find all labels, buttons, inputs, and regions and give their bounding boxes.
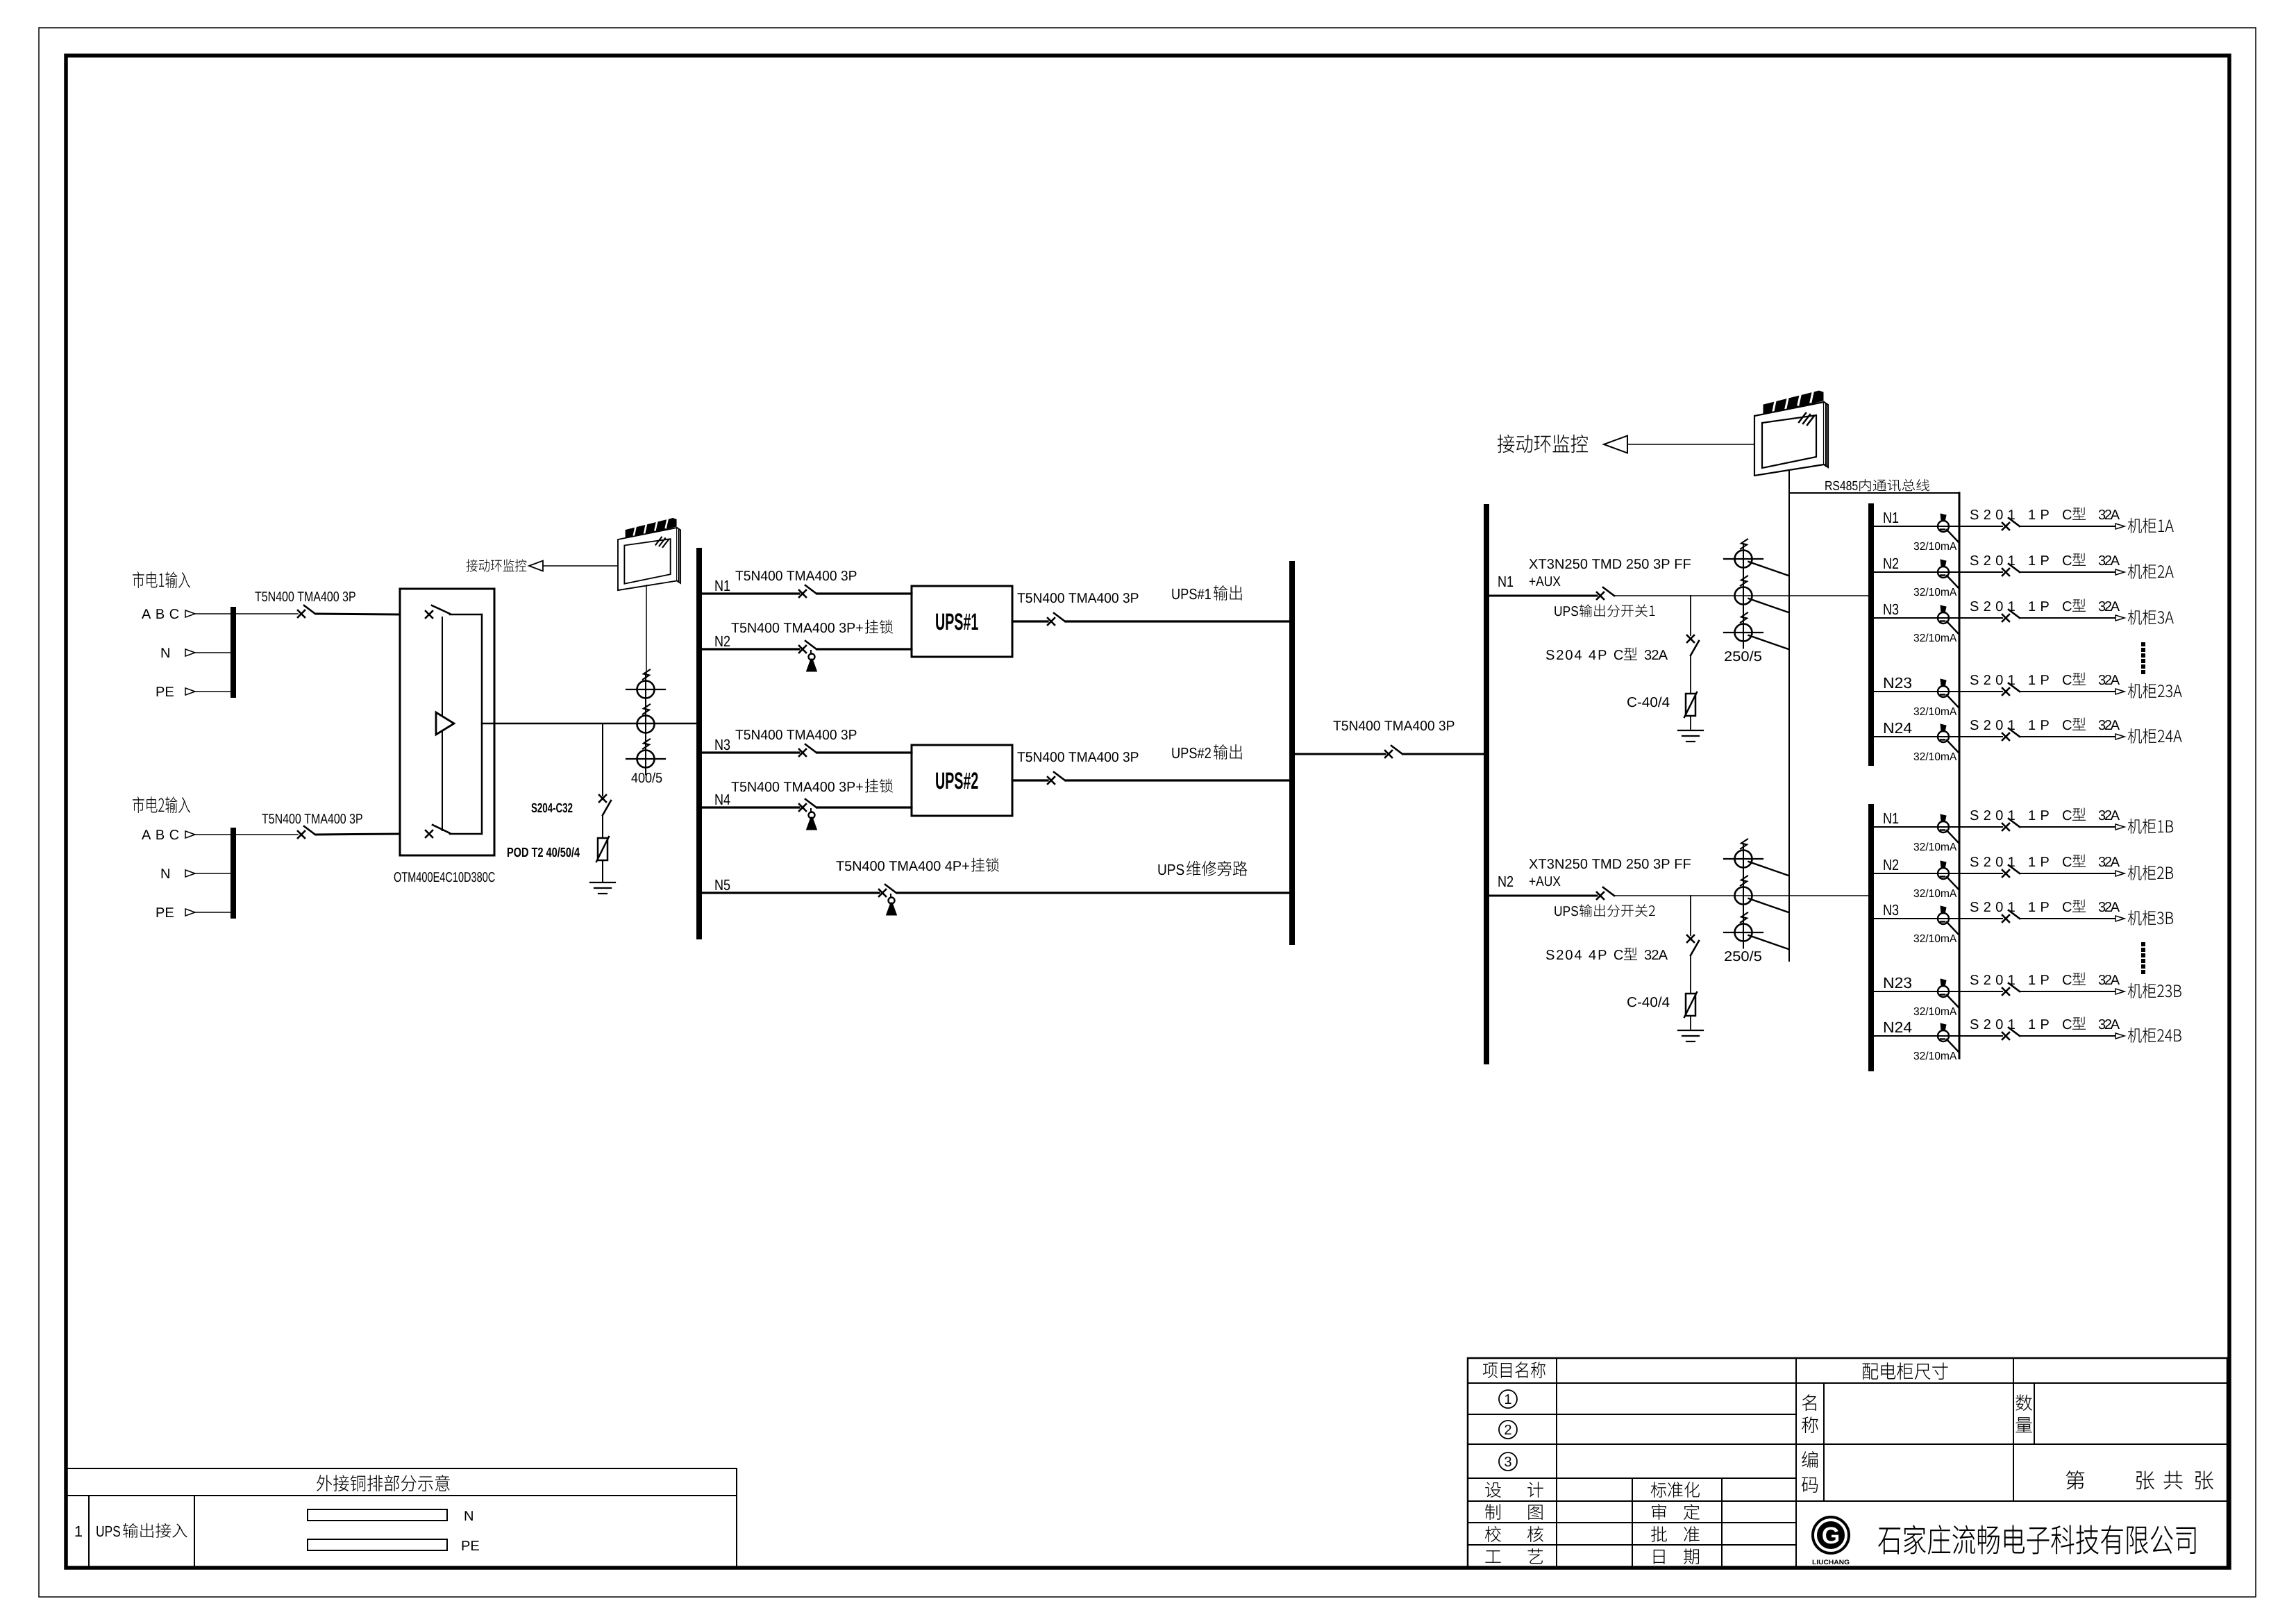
label 项目名称 <box>1483 1362 1545 1378</box>
ground <box>590 882 615 883</box>
label 日期 <box>1654 1550 1665 1564</box>
busbar branch group B <box>1868 807 1874 1069</box>
label 市电2输入 <box>133 796 190 813</box>
busbar mains input 市电1输入 <box>231 610 236 695</box>
arrow to monitoring system <box>529 561 543 571</box>
wire branch <box>1874 918 2002 919</box>
node N2 (main bus feeder) <box>1498 876 1513 887</box>
RCD sensor 32/10mA <box>1938 1030 1949 1041</box>
wire RS485 CT collector line <box>1788 493 1790 961</box>
ATS internal common bus <box>481 614 483 834</box>
title block frame <box>1468 1358 2227 1568</box>
wire ATS output <box>482 723 494 725</box>
ATS transfer switch OTM400E4C10D380C box <box>400 589 494 855</box>
label 设计 <box>1485 1482 1501 1498</box>
RCD sensor 32/10mA <box>1938 868 1949 879</box>
node N2 <box>715 636 730 646</box>
label 机柜3A <box>2128 610 2174 625</box>
arrow to cabinet <box>2115 615 2125 621</box>
node A B C input terminals <box>142 830 178 839</box>
node N input terminal <box>162 648 169 658</box>
label 外接铜排部分示意 <box>317 1475 450 1491</box>
busbar N copper bar <box>308 1509 447 1521</box>
breaker S204 4P C型 32A <box>1687 635 1699 655</box>
breaker S201 1P C型 32A <box>2002 728 2020 740</box>
breaker N5 T5N400 TMA400 4P+挂锁 <box>879 885 896 896</box>
label 机柜24B <box>2128 1028 2181 1043</box>
CT 250/5 (3 metering CTs) <box>1743 844 1744 948</box>
wire N2 feeder <box>702 648 799 650</box>
wire tie bus2-bus3 <box>1295 753 1385 755</box>
label 制图 <box>1485 1504 1500 1520</box>
label 接动环监控 (left) <box>467 559 527 571</box>
label 审定 <box>1652 1504 1666 1520</box>
breaker XT3N250 TMD 250 3P FF+AUX <box>1597 887 1614 899</box>
label 配电柜尺寸 <box>1863 1362 1948 1380</box>
busbar UPS output bus <box>1289 564 1295 942</box>
UPS#1 box <box>912 586 1012 657</box>
node N5 <box>715 880 730 890</box>
breaker QF1 T5N400 TMA400 3P (mains 1) <box>298 605 315 617</box>
wire branch <box>1874 736 2002 737</box>
UPS#2 box <box>912 745 1012 816</box>
arrow to cabinet <box>2115 734 2125 739</box>
RCD sensor 32/10mA <box>1938 686 1949 697</box>
label 机柜1B <box>2128 819 2173 834</box>
node N1 branch <box>1884 813 1898 823</box>
circled number 1 <box>1499 1390 1517 1408</box>
ATS label OTM400E4C10D380C <box>394 872 495 882</box>
node N3 <box>715 739 730 751</box>
label 输出分开关2 <box>1555 906 1578 916</box>
wire branch <box>1874 1035 2002 1037</box>
breaker S201 1P C型 32A <box>2002 983 2020 995</box>
breaker XT3N250 TMD 250 3P FF+AUX <box>1597 587 1614 599</box>
surge arrester POD T2 40/50/4 <box>598 838 607 860</box>
node PE input terminal <box>157 687 174 696</box>
node N1 branch <box>1884 512 1898 523</box>
label 机柜23A <box>2128 683 2182 698</box>
wire SPD branch drop <box>1690 596 1691 635</box>
circled number 2 <box>1499 1421 1517 1439</box>
label 400/5 <box>631 772 662 782</box>
breaker N3 T5N400 TMA400 3P <box>799 744 816 756</box>
wire feeder <box>1489 895 1597 897</box>
arrow to cabinet <box>2115 916 2125 921</box>
arrow to cabinet <box>2115 989 2125 994</box>
wire branch <box>1874 826 2002 828</box>
node A B C input terminals <box>142 609 178 619</box>
breaker S201 1P C型 32A <box>2002 564 2020 576</box>
arrow to cabinet <box>2115 871 2125 876</box>
breaker tie T5N400 TMA400 3P <box>1385 746 1402 757</box>
label RS485内通讯总线 <box>1825 481 1857 490</box>
breaker S201 1P C型 32A <box>2002 865 2020 877</box>
breaker S201 1P C型 32A <box>2002 610 2020 621</box>
busbar PE copper bar <box>308 1539 447 1550</box>
label 第 张 共 张 <box>2066 1471 2085 1489</box>
breaker N1 T5N400 TMA400 3P <box>799 585 816 597</box>
node N2 branch <box>1884 860 1898 870</box>
label 批准 <box>1651 1526 1667 1542</box>
node N1 <box>715 580 730 591</box>
company logo LIUCHANG <box>1813 1517 1849 1553</box>
label UPS维修旁路 <box>1158 864 1184 876</box>
RCD sensor 32/10mA <box>1938 567 1949 578</box>
node N3 branch <box>1884 604 1898 615</box>
node N input terminal <box>162 869 169 878</box>
breaker UPS#1 output T5N400 TMA400 3P <box>1048 613 1065 625</box>
node N24 branch <box>1884 723 1912 733</box>
wire feeder <box>1489 595 1597 597</box>
wire N3 feeder <box>702 751 799 753</box>
CT 250/5 (3 metering CTs) <box>1743 544 1744 648</box>
label 接动环监控 (right) <box>1498 435 1588 453</box>
ATS contact 1 <box>426 605 450 618</box>
RCD sensor 32/10mA <box>1938 521 1949 532</box>
arrow to cabinet <box>2115 824 2125 830</box>
label 标准化 <box>1651 1482 1700 1498</box>
busbar branch group A <box>1868 506 1874 763</box>
wire branch <box>1874 617 2002 619</box>
breaker N4 T5N400 TMA400 3P+挂锁 <box>799 799 816 811</box>
surge arrester C-40/4 <box>1686 694 1695 716</box>
label 机柜2B <box>2128 865 2173 880</box>
breaker S204 4P C型 32A <box>1687 935 1699 955</box>
ground <box>1678 1030 1703 1031</box>
arrow to cabinet <box>2115 569 2125 575</box>
busbar mains input 市电2输入 <box>231 830 236 916</box>
wire N5 maintenance bypass <box>702 891 879 894</box>
label 校核 <box>1485 1526 1501 1542</box>
arrow to monitoring system (right) <box>1604 436 1627 453</box>
RCD sensor 32/10mA <box>1938 913 1949 924</box>
breaker S201 1P C型 32A <box>2002 683 2020 695</box>
wire branch <box>1874 991 2002 992</box>
node N23 branch <box>1884 678 1911 689</box>
ellipsis dots group B <box>2141 942 2145 946</box>
label 机柜1A <box>2128 518 2174 533</box>
monitor display (right, panel PC) <box>1754 390 1828 476</box>
breaker S201 1P C型 32A <box>2002 819 2020 830</box>
surge arrester C-40/4 <box>1686 994 1695 1016</box>
RCD sensor 32/10mA <box>1938 731 1949 742</box>
breaker S204-C32 (SPD) <box>599 795 611 815</box>
breaker UPS#2 output T5N400 TMA400 3P <box>1048 772 1065 784</box>
ground <box>1678 730 1703 731</box>
wire branch <box>1874 526 2002 527</box>
node N4 <box>715 794 730 805</box>
wire breaker1 to ATS <box>316 614 400 614</box>
wire mains2 to breaker <box>236 834 298 835</box>
label 市电1输入 <box>133 571 190 588</box>
breaker S201 1P C型 32A <box>2002 910 2020 922</box>
label 名称 <box>1802 1394 1816 1411</box>
node N1 (main bus feeder) <box>1498 576 1513 587</box>
wire branch <box>1874 571 2002 573</box>
wire SPD branch drop <box>602 723 603 796</box>
circled number 3 <box>1499 1453 1517 1471</box>
wire UPS#2 output <box>1012 779 1048 781</box>
label 机柜3B <box>2128 910 2173 926</box>
node N2 branch <box>1884 558 1898 569</box>
node N24 branch <box>1884 1022 1912 1032</box>
wire breaker2 to ATS <box>316 834 400 835</box>
monitor display (left, panel PC) <box>618 517 680 590</box>
breaker S201 1P C型 32A <box>2002 1028 2020 1039</box>
wire branch <box>1874 691 2002 692</box>
padlock N2 <box>809 654 815 660</box>
arrow to cabinet <box>2115 1033 2125 1039</box>
ellipsis dots group A <box>2141 642 2145 646</box>
wire SPD branch drop <box>1690 896 1691 935</box>
wire mains1 to breaker <box>236 613 298 614</box>
CT 400/5 (3 phase current transformers) <box>645 675 646 775</box>
node PE input terminal <box>157 907 174 917</box>
padlock N4 <box>809 812 815 819</box>
RCD sensor 32/10mA <box>1938 986 1949 997</box>
label 机柜23B <box>2128 983 2181 998</box>
node N23 branch <box>1884 978 1911 989</box>
wire RS485 branch sensor bus <box>1959 493 1961 1058</box>
arrow to cabinet <box>2115 524 2125 529</box>
arrow to cabinet <box>2115 689 2125 694</box>
RCD sensor 32/10mA <box>1938 612 1949 623</box>
busbar main distribution bus <box>1484 507 1489 1062</box>
wire monitor stem <box>646 585 647 675</box>
breaker N2 T5N400 TMA400 3P+挂锁 <box>799 641 816 653</box>
ATS drive triangle <box>436 712 454 735</box>
wire monitor stem right <box>1788 470 1790 493</box>
wire RS485 bus top <box>1789 492 1959 494</box>
busbar N (UPS input bus) <box>696 551 702 937</box>
label 机柜24A <box>2128 728 2182 744</box>
wire N4 feeder <box>702 806 799 808</box>
label 输出分开关1 <box>1555 606 1578 616</box>
label UPS#2输出 <box>1172 748 1210 759</box>
label 数量 <box>2016 1394 2032 1411</box>
label 1 <box>76 1526 82 1537</box>
wire UPS#1 output <box>1012 620 1048 622</box>
label UPS#1输出 <box>1172 589 1210 600</box>
company name 石家庄流畅电子科技有限公司 <box>1878 1525 2195 1555</box>
wire branch <box>1874 873 2002 874</box>
label 编码 <box>1802 1451 1818 1468</box>
RCD sensor 32/10mA <box>1938 821 1949 832</box>
label 机柜2A <box>2128 564 2174 579</box>
breaker S201 1P C型 32A <box>2002 518 2020 530</box>
ATS contact 2 <box>426 825 450 837</box>
label 工艺 <box>1485 1550 1500 1563</box>
label UPS输出接入 <box>97 1526 120 1537</box>
wire N1 feeder <box>702 592 799 594</box>
node N3 branch <box>1884 905 1898 916</box>
legend table 外接铜排部分示意 <box>67 1468 737 1469</box>
padlock N5 <box>889 898 895 904</box>
breaker QF2 T5N400 TMA400 3P (mains 2) <box>298 826 315 838</box>
